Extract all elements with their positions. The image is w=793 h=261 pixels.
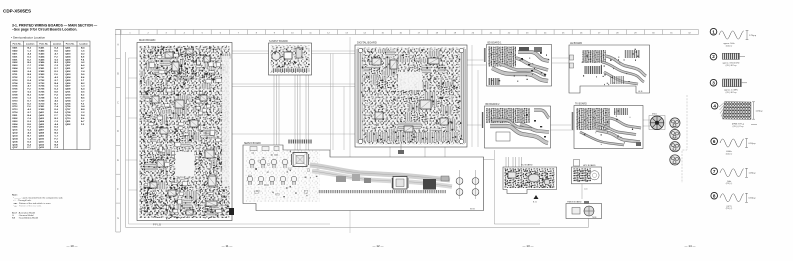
svg-text:Q501: Q501 <box>65 48 71 50</box>
svg-text:P F L B: P F L B <box>153 224 161 227</box>
IC block on digital board <box>428 58 439 64</box>
IC block U15 on main board <box>190 120 198 127</box>
board A ribbon traces <box>492 68 548 81</box>
IC block on digital board <box>404 126 413 132</box>
board A sprinkle <box>491 52 550 82</box>
wire main to digital mid <box>232 84 355 134</box>
svg-text:Q707: Q707 <box>65 109 71 111</box>
svg-text:2: 2 <box>712 54 715 59</box>
dac board texture <box>505 169 555 189</box>
svg-text:D604: D604 <box>13 67 19 70</box>
s-input pin row <box>272 69 308 73</box>
svg-text:D471: D471 <box>13 53 19 56</box>
dac board frame <box>503 164 557 194</box>
IC block on digital board <box>372 58 381 65</box>
svg-text:IC401: IC401 <box>39 47 45 50</box>
svg-text:3: 3 <box>712 80 715 85</box>
svg-text:D710: D710 <box>13 100 19 102</box>
svg-text:D701: D701 <box>13 74 19 76</box>
svg-text:D601: D601 <box>13 59 19 61</box>
svg-text:Q507: Q507 <box>65 65 71 67</box>
transistor can Q904 <box>670 155 680 165</box>
svg-text:Q708: Q708 <box>65 112 71 114</box>
main board dark marks <box>140 46 229 219</box>
svg-text:IC708: IC708 <box>39 97 45 99</box>
svg-text:Q413: Q413 <box>39 146 45 149</box>
svg-text:Q607: Q607 <box>65 86 71 88</box>
svg-text:0.5Vp-p: 0.5Vp-p <box>749 143 757 145</box>
IC block U2 on main board <box>186 49 193 54</box>
LE board small parts <box>582 49 639 86</box>
page footers <box>66 244 695 248</box>
digital board white relief <box>398 72 422 90</box>
IC block U13 on main board <box>186 210 193 215</box>
svg-text:Q710: Q710 <box>65 118 71 120</box>
svg-text:Q705: Q705 <box>65 103 71 105</box>
servo board outline <box>243 142 484 211</box>
digital board frame <box>355 41 467 147</box>
svg-text:D402: D402 <box>13 50 19 53</box>
svg-text:SERVO BOARD: SERVO BOARD <box>244 142 261 145</box>
svg-text:EA : Saudi Arabia Model: EA : Saudi Arabia Model <box>12 217 39 220</box>
waveform 2 burst <box>710 53 745 67</box>
svg-text:1: 1 <box>712 29 715 34</box>
svg-text:Q402: Q402 <box>39 114 45 117</box>
tk board small parts <box>579 110 634 144</box>
svg-text:D704: D704 <box>13 82 19 85</box>
wire LE board to motor <box>643 120 650 126</box>
wire bottom board to DAC board <box>437 150 540 224</box>
main board component clusters <box>140 47 233 217</box>
hpj circle cutout <box>590 171 599 180</box>
motor M101 <box>649 114 665 130</box>
svg-text:Q502: Q502 <box>65 51 71 53</box>
svg-text:Q102: Q102 <box>13 133 19 135</box>
svg-text:LE B: LE B <box>638 91 643 93</box>
svg-text:Q604: Q604 <box>65 76 71 79</box>
svg-text:Q504: Q504 <box>65 55 71 58</box>
svg-text:D707: D707 <box>13 92 19 94</box>
transistor row 2 <box>247 176 253 185</box>
svg-text:• Semiconductor Location: • Semiconductor Location <box>11 36 45 40</box>
svg-text:Q405: Q405 <box>39 123 45 126</box>
svg-text:Location: Location <box>79 42 88 45</box>
svg-text:1.2Vp-p: 1.2Vp-p <box>756 110 764 112</box>
hpj connector above <box>574 160 580 167</box>
svg-text:Parts No.: Parts No. <box>39 42 48 45</box>
svg-text:–See page 9 for Circuit Boards: –See page 9 for Circuit Boards Location. <box>12 28 77 32</box>
wire bundle down to servo <box>331 54 345 151</box>
svg-text:D904: D904 <box>13 123 19 126</box>
dac arrow <box>534 195 539 199</box>
waveform 7 sine <box>711 168 756 185</box>
svg-text:IC704: IC704 <box>39 85 45 88</box>
IC block U12 on main board <box>206 201 217 206</box>
s-input board frame <box>269 40 312 75</box>
svg-text:Q505: Q505 <box>65 59 71 61</box>
wire ribbon board A to LE board <box>552 58 569 63</box>
svg-text:D711: D711 <box>13 103 19 105</box>
svg-text:D702: D702 <box>13 77 19 79</box>
tk board tag <box>636 142 641 146</box>
svg-text:IC710: IC710 <box>39 103 45 105</box>
svg-text:Q709: Q709 <box>65 115 71 117</box>
s-input small parts <box>271 47 310 68</box>
svg-text:— 12 —: — 12 — <box>372 244 383 248</box>
svg-text:Q703: Q703 <box>65 97 71 99</box>
IC block U6 on main board <box>200 95 207 101</box>
svg-text:Q401: Q401 <box>39 111 45 114</box>
IC block on digital board <box>440 118 448 125</box>
svg-text:IC705: IC705 <box>39 89 45 91</box>
IC block on digital board <box>375 112 383 119</box>
svg-text:D708: D708 <box>13 95 19 97</box>
IC block U5 on main board <box>175 100 184 108</box>
svg-text:G: G <box>117 218 119 220</box>
svg-text:J-51: J-51 <box>584 189 588 191</box>
dac board ICs <box>508 172 516 178</box>
svg-text:(CD) ·B Ps-p: (CD) ·B Ps-p <box>726 92 737 94</box>
svg-text:1.0Vp-p: 1.0Vp-p <box>749 173 757 175</box>
IC block U10 on main board <box>150 182 157 188</box>
LE board IC cluster <box>582 50 606 63</box>
svg-text:7: 7 <box>713 169 716 174</box>
svg-text:Q410: Q410 <box>39 137 45 140</box>
dark block on servo <box>423 179 436 190</box>
servo top edge connectors <box>250 147 279 151</box>
IC block U9 on main board <box>208 176 216 186</box>
svg-text:D703: D703 <box>13 80 19 82</box>
tk board connector pins left <box>571 112 574 130</box>
servo ribbon bundle <box>310 165 450 180</box>
svg-text:G : German Model: G : German Model <box>12 214 34 217</box>
svg-text:LE BOARD: LE BOARD <box>570 42 582 45</box>
top coordinate ruler <box>115 30 699 35</box>
svg-text:• ○ : Through hole.: • ○ : Through hole. <box>13 199 32 202</box>
transistor can Q902 <box>670 129 680 139</box>
waveform 1 sine <box>710 28 757 47</box>
wire stubs main board left <box>126 58 138 190</box>
servo board faint texture <box>245 150 320 202</box>
svg-text:SV B: SV B <box>470 208 475 210</box>
svg-text:— 14 —: — 14 — <box>684 244 695 248</box>
svg-text:Q101: Q101 <box>13 130 19 132</box>
svg-text:MAIN BOARD: MAIN BOARD <box>139 38 156 42</box>
tmex small rect <box>572 208 580 215</box>
board A connector pins <box>484 48 487 62</box>
svg-text:Q407: Q407 <box>39 129 45 132</box>
wire main to digital top <box>232 51 355 54</box>
svg-text:Q411: Q411 <box>39 140 45 143</box>
waveform 6 sine <box>711 138 756 155</box>
svg-text:D401: D401 <box>13 47 19 50</box>
svg-text:TMEX BOARD: TMEX BOARD <box>567 201 582 204</box>
digital board clusters <box>364 49 458 144</box>
svg-text:D709: D709 <box>13 97 19 99</box>
svg-text:B 21: B 21 <box>533 202 537 204</box>
svg-text:D706: D706 <box>13 89 19 91</box>
board C connector pins <box>482 112 485 128</box>
IC block U7 on main board <box>160 128 168 134</box>
transistor can Q901 <box>670 118 680 128</box>
svg-text:1.2Vp-p: 1.2Vp-p <box>749 35 757 37</box>
svg-text:Q608: Q608 <box>65 89 71 91</box>
svg-text:Location: Location <box>26 42 35 45</box>
svg-text:IC707: IC707 <box>39 95 45 97</box>
svg-text:M101: M101 <box>652 114 657 116</box>
svg-text:8: 8 <box>713 193 716 198</box>
svg-text:Location: Location <box>53 42 62 45</box>
tk board ribbon traces <box>596 130 640 142</box>
svg-text:Q404: Q404 <box>39 120 45 123</box>
svg-text:Q409: Q409 <box>39 135 45 138</box>
main board component outlines <box>142 54 222 213</box>
svg-text:TK BOARD: TK BOARD <box>575 103 587 106</box>
svg-text:AU,E : Australian Model: AU,E : Australian Model <box>12 211 36 214</box>
electrolytic pair 2 <box>472 170 479 199</box>
svg-text:Q701: Q701 <box>65 92 71 94</box>
IC block U11 on main board <box>168 190 176 196</box>
board C ribbon traces <box>490 126 548 143</box>
tmex motor circle <box>584 206 594 216</box>
servo board left parts <box>248 151 318 198</box>
svg-text:Q412: Q412 <box>39 143 45 146</box>
servo flex connector to main <box>288 140 312 144</box>
IC block U1 on main board <box>165 52 173 58</box>
svg-text:Q901: Q901 <box>65 121 71 123</box>
ribbon board C frame <box>485 103 551 148</box>
svg-text:IC406: IC406 <box>39 61 45 64</box>
svg-text:Note:: Note: <box>12 194 18 197</box>
digital board bottom band <box>366 132 458 141</box>
svg-text:IC404: IC404 <box>39 55 45 58</box>
LE board ribbon traces <box>606 56 646 76</box>
svg-text:Parts No.: Parts No. <box>13 42 22 45</box>
svg-text:Q103: Q103 <box>13 136 19 138</box>
svg-text:D903: D903 <box>13 121 19 123</box>
svg-text:Q105: Q105 <box>13 141 19 143</box>
IC on s-input <box>284 52 292 59</box>
svg-text:D901: D901 <box>13 115 19 117</box>
svg-text:Q902: Q902 <box>65 124 71 126</box>
tmex board frame <box>566 201 602 219</box>
IC block U8 on main board <box>205 150 214 158</box>
board A comb cluster <box>488 47 516 67</box>
svg-text:D705: D705 <box>13 86 19 88</box>
left coordinate ruler <box>116 30 121 232</box>
svg-text:SC BOARD: SC BOARD <box>521 164 533 167</box>
tk board frame <box>574 103 643 149</box>
svg-text:• ——— : parts mounted from the: • ——— : parts mounted from the component… <box>13 197 64 200</box>
electrolytic pair 1 <box>456 170 463 199</box>
svg-text:D713: D713 <box>13 109 19 111</box>
main board white patches <box>176 152 194 176</box>
digital board right edge hatch bar <box>460 49 466 143</box>
LE board frame <box>569 42 650 93</box>
svg-text:IC405: IC405 <box>39 58 45 61</box>
electrolytic capacitor C501 on s-input <box>272 52 280 60</box>
wire s-input bundle 1 <box>274 75 279 148</box>
svg-text:Q606: Q606 <box>65 83 71 85</box>
svg-text:D602: D602 <box>13 62 19 64</box>
svg-text:Q503: Q503 <box>65 54 71 56</box>
svg-text:Q408: Q408 <box>39 132 45 135</box>
tmex top connector <box>584 201 589 204</box>
svg-text:D905: D905 <box>13 127 19 129</box>
svg-text:IC603: IC603 <box>39 74 45 76</box>
board C comb cluster top <box>486 108 530 123</box>
wire s-input bundle 2 <box>295 75 300 150</box>
svg-text:— 10 —: — 10 — <box>66 244 77 248</box>
svg-text:Q601: Q601 <box>65 68 71 70</box>
IC block U14 on main board <box>172 62 179 71</box>
LE board edge connectors <box>570 55 574 60</box>
page boundary dash <box>682 95 687 183</box>
ribbon board A frame <box>487 42 552 87</box>
svg-text:4: 4 <box>713 103 716 108</box>
IC block on digital board <box>390 60 397 69</box>
svg-text:D902: D902 <box>13 118 19 120</box>
IC block on digital board <box>420 100 431 109</box>
svg-text:D605: D605 <box>13 71 19 73</box>
digital board corner screws <box>358 48 362 52</box>
wire left loop around main board <box>126 52 589 227</box>
main board black blobs <box>151 50 222 211</box>
board C white box <box>496 132 510 141</box>
semiconductor location table <box>11 41 91 150</box>
QFP IC601 on servo board <box>291 153 309 167</box>
svg-text:IC702: IC702 <box>39 80 45 82</box>
transistor can Q903 <box>670 142 680 152</box>
wire board C to board D <box>550 125 574 130</box>
svg-text:BD BOARD 1: BD BOARD 1 <box>488 42 503 45</box>
hpj board frame <box>572 164 602 184</box>
svg-text:• ▬ : Pattern of the rear sid: • ▬ : Pattern of the rear side. <box>13 204 42 207</box>
svg-text:D714: D714 <box>13 111 19 114</box>
svg-text:IC706: IC706 <box>39 92 45 94</box>
svg-text:IC901: IC901 <box>39 106 45 108</box>
svg-text:Q104: Q104 <box>13 137 19 140</box>
wire inner left <box>129 58 331 224</box>
svg-text:IC701: IC701 <box>39 77 45 79</box>
connector on main board bottom right <box>229 208 234 215</box>
page divider line <box>349 37 351 233</box>
small parts right <box>441 176 449 181</box>
IC block U4 on main board <box>152 96 159 103</box>
svg-text:Q107: Q107 <box>13 147 19 149</box>
svg-text:IC501: IC501 <box>39 65 45 67</box>
wire s-input bundle 3 <box>306 75 309 150</box>
waveform 3 burst <box>710 79 747 94</box>
svg-text:IC602: IC602 <box>39 71 45 73</box>
wire DAC risers <box>506 157 522 167</box>
svg-text:D712: D712 <box>13 106 19 108</box>
svg-text:IC601: IC601 <box>39 68 45 70</box>
svg-text:Q702: Q702 <box>65 95 71 97</box>
svg-text:— 11 —: — 11 — <box>222 244 233 248</box>
svg-text:D501: D501 <box>13 56 19 58</box>
connector above servo <box>398 150 404 154</box>
svg-text:• ▬ : Pattern of the side whi: • ▬ : Pattern of the side which is seen. <box>13 202 51 205</box>
svg-text:IC703: IC703 <box>39 83 45 85</box>
svg-text:S-INPUT BOARD: S-INPUT BOARD <box>269 40 288 43</box>
svg-text:IC403: IC403 <box>39 53 45 56</box>
wire digital to bottom board <box>390 147 445 157</box>
svg-text:0.5Vp-p: 0.5Vp-p <box>749 198 757 200</box>
svg-text:IC402: IC402 <box>39 50 45 53</box>
digital board dark marks <box>361 49 462 141</box>
svg-text:BD BOARD 2: BD BOARD 2 <box>486 103 501 106</box>
wire digital right to ribbon boards <box>467 45 486 147</box>
svg-text:Q403: Q403 <box>39 117 45 120</box>
svg-text:IC902: IC902 <box>39 109 45 111</box>
svg-text:Q603: Q603 <box>65 74 71 76</box>
svg-text:Q602: Q602 <box>65 71 71 73</box>
svg-text:— 13 —: — 13 — <box>522 244 533 248</box>
svg-text:(CD) ·B Ps-p: (CD) ·B Ps-p <box>726 65 737 67</box>
hpj board rows <box>573 169 591 183</box>
wire hpj down <box>581 184 583 199</box>
svg-text:Parts No.: Parts No. <box>66 42 75 45</box>
svg-text:Q605: Q605 <box>65 80 71 82</box>
transistor row 1 <box>249 159 255 168</box>
digital board left edge hatch bar <box>357 49 363 143</box>
main board frame <box>137 38 232 221</box>
svg-text:6: 6 <box>713 139 716 144</box>
IC block U3 on main board <box>204 56 210 62</box>
waveform 8 sine <box>711 192 756 210</box>
svg-text:Q704: Q704 <box>65 99 71 102</box>
svg-text:D603: D603 <box>13 65 19 67</box>
board A small parts <box>519 47 529 51</box>
svg-text:IC709: IC709 <box>39 100 45 102</box>
note block <box>12 194 64 220</box>
svg-text:CDP-X505ES: CDP-X505ES <box>3 9 31 14</box>
svg-text:DIGITAL BOARD: DIGITAL BOARD <box>357 41 377 45</box>
svg-text:Q506: Q506 <box>65 62 71 64</box>
svg-text:Q706: Q706 <box>65 106 71 108</box>
svg-text:Q406: Q406 <box>39 126 45 129</box>
svg-text:Q106: Q106 <box>13 144 19 146</box>
IC block U16 on main board <box>157 160 164 167</box>
waveform 4 eye pattern <box>711 102 763 128</box>
QFP IC602 on servo board <box>391 177 409 190</box>
tk board comb cluster <box>576 108 610 130</box>
servo smd strip <box>318 190 446 193</box>
servo parts mid <box>336 176 346 182</box>
